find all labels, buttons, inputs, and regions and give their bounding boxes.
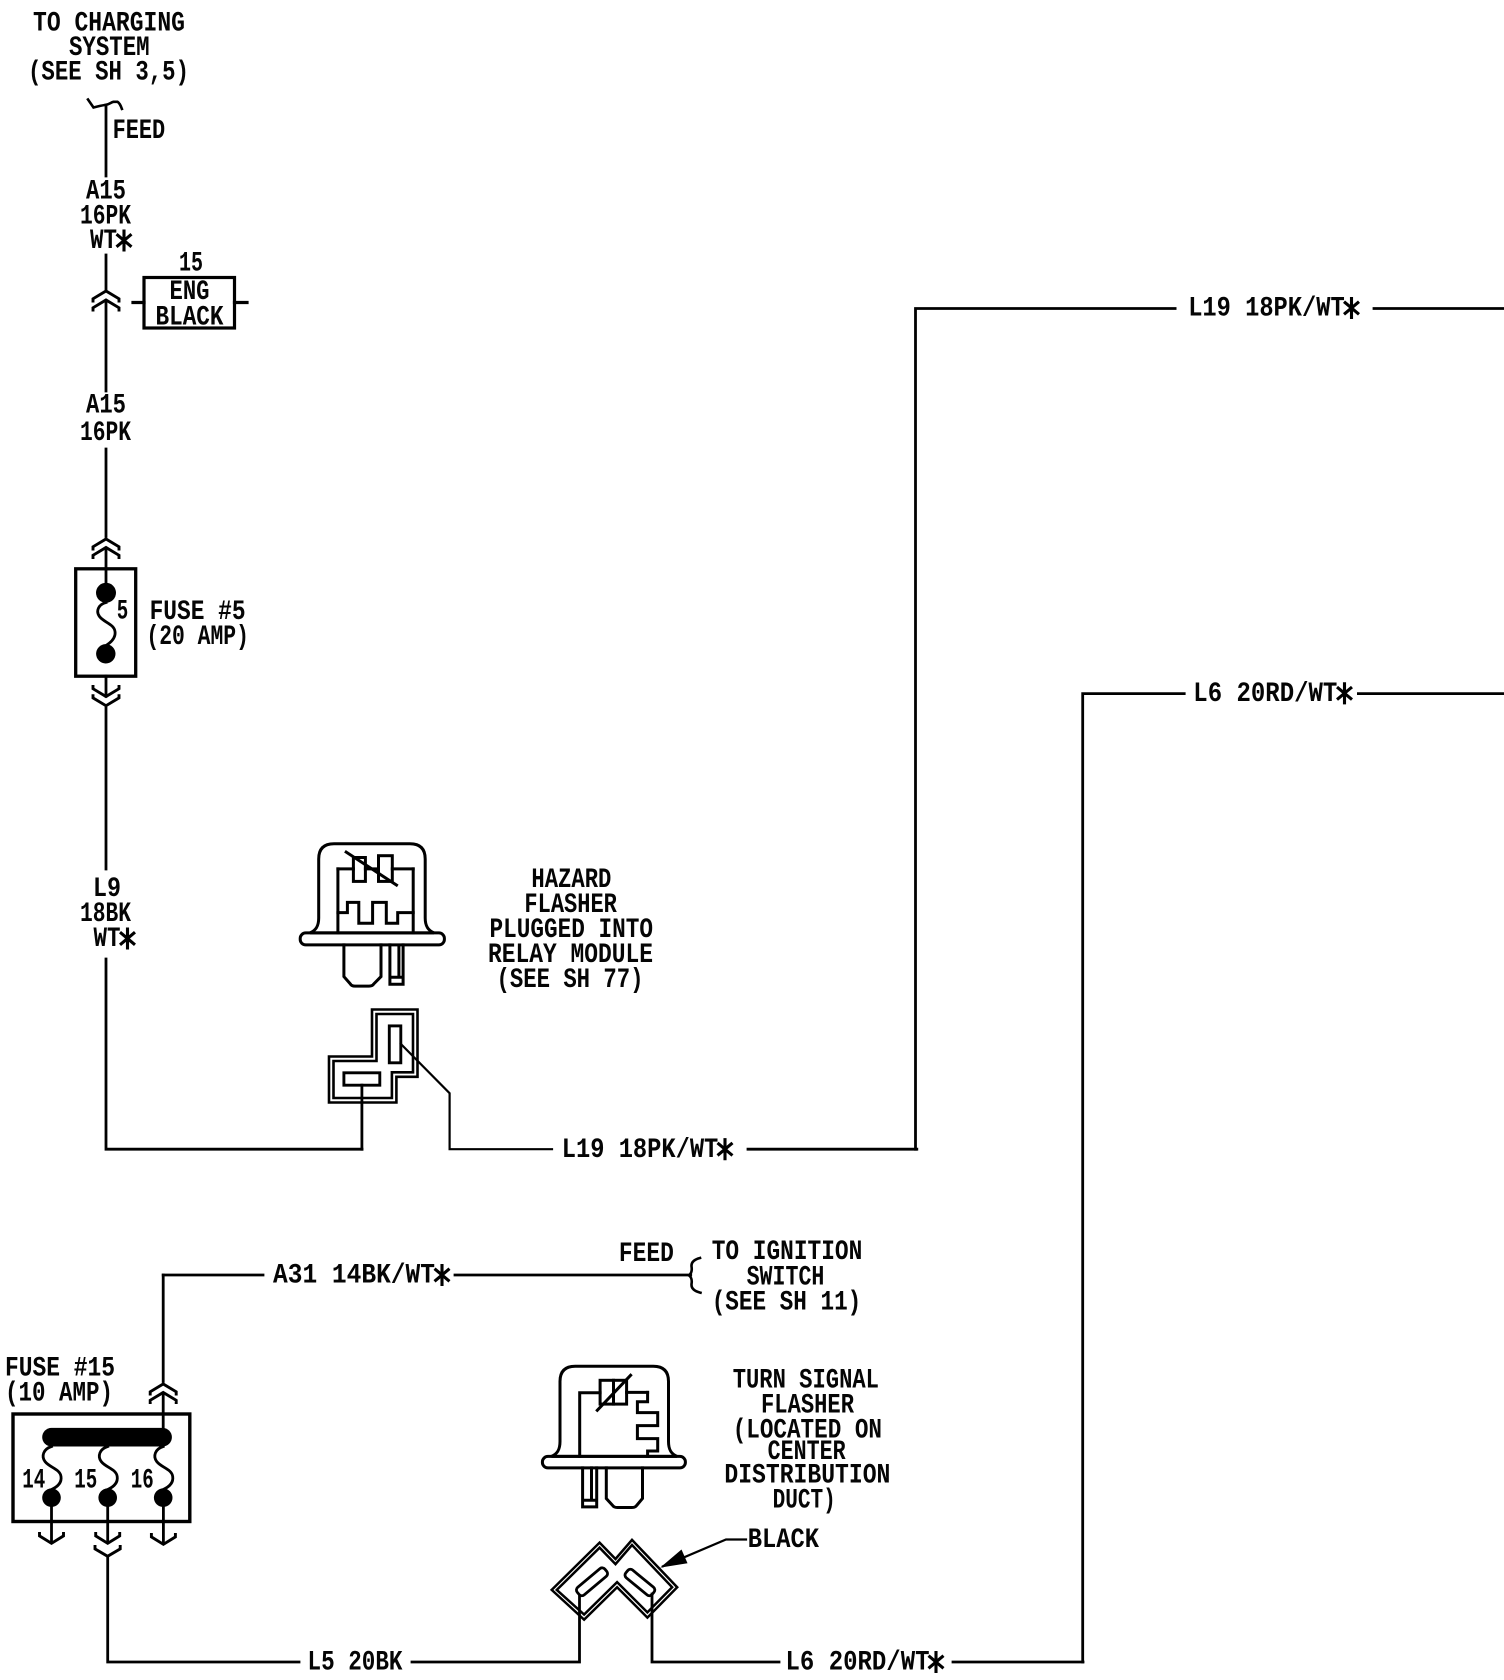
- BLACK pointer arrow: [660, 1540, 746, 1568]
- svg-text:(20 AMP): (20 AMP): [146, 622, 249, 653]
- asterisk: [1345, 299, 1358, 318]
- wire L9: [105, 708, 108, 869]
- svg-text:L5 20BK: L5 20BK: [308, 1648, 403, 1679]
- fuse element 14: [42, 1447, 61, 1507]
- svg-text:WT: WT: [94, 924, 121, 955]
- fuse element 16: [154, 1447, 173, 1507]
- inline connector: [150, 1384, 176, 1403]
- inline connector pin 15: [95, 1547, 120, 1557]
- wire connector pin to L9: [360, 1085, 363, 1149]
- arrow pin 14: [40, 1534, 64, 1544]
- svg-text:15: 15: [74, 1466, 97, 1497]
- svg-text:L19 18PK/WT: L19 18PK/WT: [1188, 294, 1345, 325]
- wire L9 to hazard connector: [106, 959, 362, 1149]
- wire L5: [108, 1557, 299, 1662]
- wire pin 14: [50, 1507, 53, 1542]
- wire L6: [953, 1661, 1083, 1664]
- wire L6 to edge: [1358, 692, 1504, 695]
- wire: [105, 548, 108, 584]
- wire A15: [105, 449, 108, 537]
- wire: [162, 1393, 165, 1427]
- svg-text:A31 14BK/WT: A31 14BK/WT: [273, 1261, 435, 1292]
- inline connector C100: [93, 291, 119, 310]
- svg-text:(SEE SH 11): (SEE SH 11): [712, 1288, 862, 1319]
- asterisk: [1338, 684, 1351, 703]
- connector ENG BLACK box: [133, 278, 247, 329]
- brace to ignition switch: [689, 1258, 701, 1293]
- wire: [105, 676, 108, 696]
- wire L6 riser: [1083, 694, 1185, 1662]
- fusebox F15: [13, 1414, 190, 1522]
- wire L19 from connector: [401, 1044, 552, 1149]
- svg-text:DUCT): DUCT): [773, 1486, 836, 1517]
- inline connector: [93, 687, 119, 706]
- asterisk: [719, 1140, 732, 1159]
- svg-text:5: 5: [117, 597, 129, 628]
- wire: [105, 255, 108, 289]
- svg-text:(SEE SH 77): (SEE SH 77): [497, 965, 644, 996]
- fuse F5 element: [96, 583, 116, 664]
- asterisk: [118, 231, 131, 250]
- wire L5 to flasher: [412, 1596, 580, 1662]
- svg-text:FEED: FEED: [113, 116, 166, 147]
- asterisk: [121, 929, 134, 948]
- svg-text:BLACK: BLACK: [156, 303, 224, 334]
- svg-text:L6 20RD/WT: L6 20RD/WT: [1193, 679, 1337, 710]
- wire A31 feed: [455, 1274, 691, 1277]
- fuse element 15: [98, 1447, 117, 1507]
- wire L19 to edge: [1374, 307, 1504, 310]
- arrow pin 15: [96, 1534, 120, 1544]
- svg-text:A15: A15: [86, 391, 126, 422]
- svg-text:(SEE SH 3,5): (SEE SH 3,5): [28, 58, 189, 89]
- svg-text:16: 16: [131, 1466, 154, 1497]
- arrow pin 16: [151, 1535, 175, 1545]
- svg-text:16PK: 16PK: [80, 418, 131, 449]
- asterisk: [930, 1653, 943, 1672]
- relay turn signal flasher: [542, 1366, 685, 1507]
- asterisk: [436, 1266, 449, 1285]
- wire L6 from socket: [652, 1594, 779, 1662]
- wire pin 15: [106, 1507, 109, 1542]
- connector turn signal flasher socket: [552, 1540, 678, 1620]
- svg-text:(10 AMP): (10 AMP): [5, 1379, 113, 1410]
- fuse F5 box: [76, 569, 136, 676]
- svg-text:WT: WT: [90, 226, 117, 257]
- wire-break squiggle: [88, 100, 122, 109]
- svg-text:L19 18PK/WT: L19 18PK/WT: [562, 1135, 719, 1166]
- svg-text:14: 14: [22, 1466, 45, 1497]
- wire: [105, 301, 108, 391]
- wire L19: [748, 1148, 917, 1151]
- wire A31: [163, 1274, 263, 1277]
- relay hazard flasher: [300, 844, 444, 986]
- wire L19 riser: [916, 309, 1176, 1150]
- wire A31 drop: [162, 1275, 165, 1382]
- svg-text:L6 20RD/WT: L6 20RD/WT: [786, 1648, 930, 1679]
- connector relay module cavity: [329, 1010, 418, 1103]
- inline connector: [93, 539, 119, 558]
- svg-text:FEED: FEED: [619, 1239, 674, 1270]
- svg-text:15: 15: [179, 249, 203, 280]
- wire A15 feed upper: [105, 105, 108, 176]
- svg-text:BLACK: BLACK: [748, 1525, 820, 1556]
- wire pin 16: [162, 1507, 165, 1543]
- bus bar: [42, 1428, 172, 1447]
